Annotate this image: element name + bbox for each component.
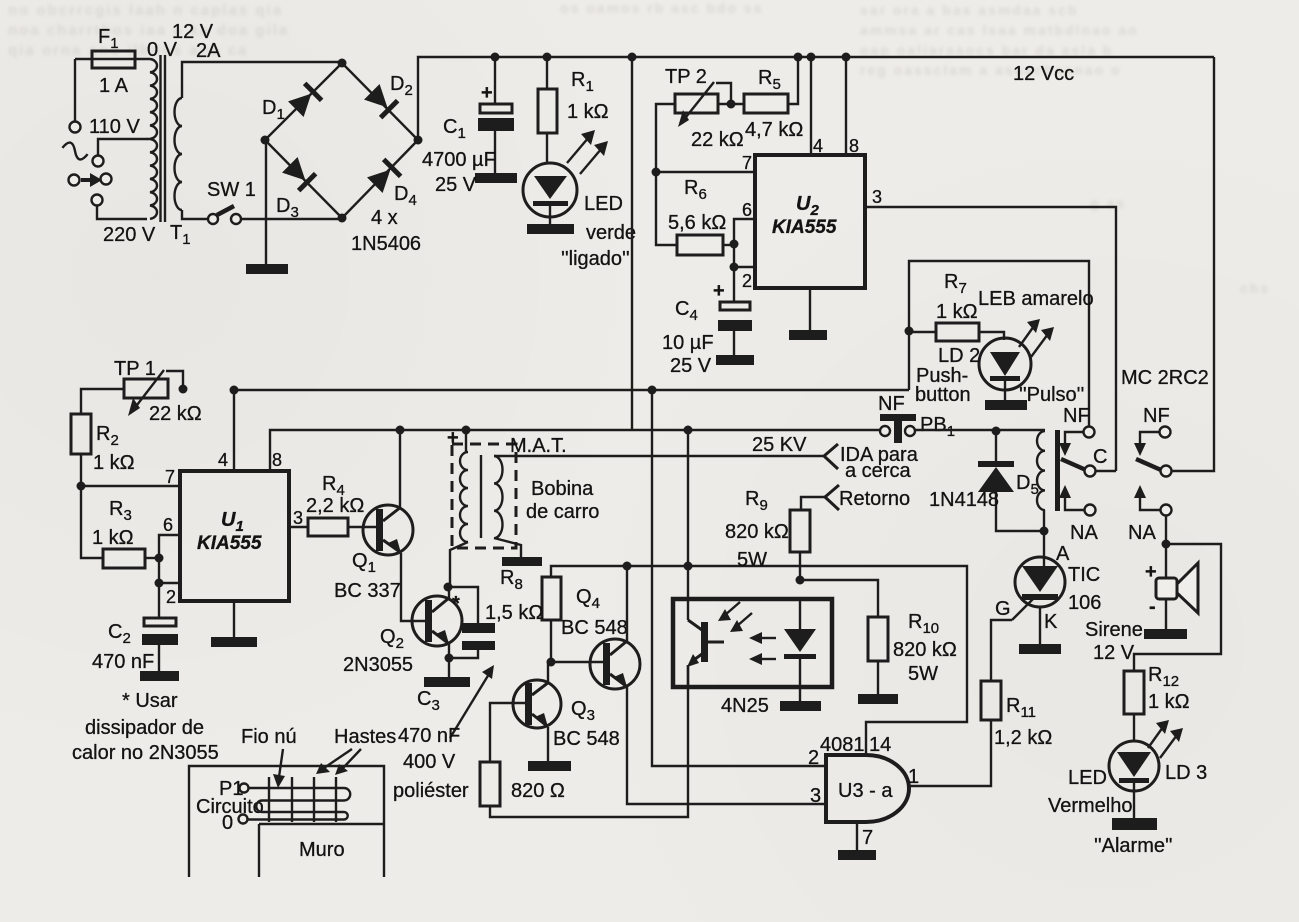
svg-text:C3: C3 [417,688,440,714]
bobina dashed box [452,444,516,548]
svg-text:Vermelho: Vermelho [1048,795,1133,817]
svg-text:4N25: 4N25 [721,695,769,717]
label R9 value 820 kOhm [725,521,789,543]
label NF PB1 [878,393,905,415]
label 820 Ohm [511,780,565,802]
wire pin6 U1 [159,535,180,558]
label C3 400 V [403,751,456,773]
svg-text:106: 106 [1068,592,1101,614]
ground below sirene [1144,629,1187,639]
label pin 6 U1 [163,515,173,535]
LED LD1 arrows [567,130,608,174]
resistor R1 [538,57,557,164]
svg-text:Muro: Muro [299,839,345,861]
node pin2 junction [730,263,739,272]
label P1 [219,778,243,800]
wire bridge right node to 12V rail [418,57,495,140]
label F1 value 1 A [99,75,129,97]
label R2 [96,423,119,449]
pushbutton PB1 [880,414,916,443]
label pin 2 U2 [742,271,752,291]
label footnote Usar dissipador [72,690,219,764]
label Bobina de carro [526,478,599,523]
wire U2 pin2 [734,266,755,268]
label C3 value 470 nF [398,725,460,747]
ground below LD2 [985,400,1027,410]
wire Q4 emitter to U3 pin3 [627,687,826,804]
svg-text:R7: R7 [944,271,967,297]
node bridge left [261,136,270,145]
label 4N25 [721,695,769,717]
svg-text:LED: LED [1068,767,1107,789]
label poliester [393,780,469,802]
4N25 coupling arrows [749,632,776,665]
label plus sirene [1145,561,1157,583]
wire U2 pin8 [845,57,847,155]
wire 12Vcc to contact set2 [1171,57,1214,471]
svg-text:R8: R8 [500,567,523,593]
wire U1 pin7 [81,485,180,487]
relay contact set2 NA terminal [1134,485,1172,516]
wire Q2 emitter to ground [448,644,450,677]
label 0 [222,812,233,834]
label NF contact1 [1063,405,1090,427]
transformer T1 core [161,55,166,222]
label 4081 [820,734,865,756]
svg-text:''Pulso'': ''Pulso'' [1019,384,1084,406]
LED LD1 verde [523,163,577,224]
wire R2 node to R3 [81,486,103,558]
label MC 2RC2 [1121,367,1209,389]
label pin 1 U3 [908,766,919,788]
svg-text:D5: D5 [1016,472,1039,498]
svg-text:-: - [1149,596,1156,618]
svg-text:R9: R9 [745,488,768,514]
svg-text:KIA555: KIA555 [772,217,837,238]
node TP2 wiper [727,100,736,109]
label R10 value 820 kOhm [893,639,957,661]
ground below C1 [475,173,517,183]
fuse F1 [75,51,150,68]
svg-text:400 V: 400 V [403,751,456,773]
label pin 3 U3 [810,785,821,807]
svg-text:1 kΩ: 1 kΩ [567,101,609,123]
node R7 left [905,327,914,336]
wire fuse to 110V terminal [74,59,76,121]
label 220 V [103,224,156,246]
wire TP2 to R5 [718,103,744,105]
relay contact set1 lever [1061,459,1086,470]
svg-text:25 V: 25 V [435,174,477,196]
svg-text:Q4: Q4 [576,586,600,612]
node bridge top [338,59,347,68]
svg-text:A: A [1056,543,1070,565]
label C4 value 10 uF [662,332,714,354]
relay core bar [1055,430,1060,511]
node rail R1 [543,53,552,62]
label C3 [417,688,440,714]
label M.A.T. [510,435,567,457]
svg-text:Hastes: Hastes [334,726,396,748]
label PB1 [920,414,955,440]
LED LD2 arrows [1019,319,1054,357]
label Sirene [1085,619,1143,641]
wire pin2 U1 [159,582,180,584]
svg-text:1,2 kΩ: 1,2 kΩ [994,727,1052,749]
svg-text:0 V: 0 V [147,39,178,61]
diode D2 [363,83,399,119]
svg-text:KIA555: KIA555 [197,533,262,554]
svg-text:7: 7 [742,153,752,173]
label 25 KV [752,434,807,456]
svg-text:2N3055: 2N3055 [343,654,413,676]
label C4 [675,298,698,324]
svg-text:calor no 2N3055: calor no 2N3055 [72,742,219,764]
label verde [586,222,636,244]
wire pin6 to pin2 [733,244,735,267]
chevron Retorno [801,485,839,510]
IC U1 KIA555 [180,471,289,601]
label pin 8 U1 [272,450,282,470]
label R11 value 1,2 kOhm [994,727,1052,749]
svg-text:NF: NF [878,393,905,415]
label pin 2 U3 [808,747,819,769]
svg-text:470 nF: 470 nF [398,725,460,747]
svg-text:*: * [452,593,460,615]
svg-text:1N5406: 1N5406 [351,233,421,255]
node sirene branch [1162,540,1171,549]
transistor Q1 [363,505,413,555]
label BC 548 Q3 [553,728,620,750]
label K cathode [1044,611,1058,633]
terminal P1 [240,784,249,793]
wire TP2 left to pin7 [656,104,677,245]
label R3 value 1 kOhm [92,527,134,549]
label Muro [299,839,345,861]
label 106 [1068,592,1101,614]
bobina core [480,455,482,538]
svg-text:8: 8 [272,450,282,470]
wire U1 pin8 rail [270,430,881,471]
svg-text:NF: NF [1063,405,1090,427]
svg-text:R11: R11 [1006,695,1036,721]
svg-text:NF: NF [1143,405,1170,427]
node Q4 collector rail [623,562,632,571]
label 12 V [172,21,214,43]
transistor Q4 [590,639,640,689]
label Q2 [380,626,404,652]
wire node391 horizontal [234,389,909,391]
label Q3 [571,698,595,724]
svg-text:button: button [915,384,971,406]
wire Q4 base [551,661,605,663]
svg-text:U1: U1 [221,509,244,535]
label 1N5406 [351,233,421,255]
svg-text:0: 0 [222,812,233,834]
wire Q1 emitter to Q2 base [401,553,427,621]
label pin 3 U1 [293,508,303,528]
svg-text:C2: C2 [108,621,131,647]
wire U2 pin7 [656,171,755,173]
svg-text:Q1: Q1 [352,550,376,576]
label R9 5W [737,549,767,571]
relay contact set1 NA terminal [1059,485,1096,516]
svg-text:NA: NA [1070,522,1098,544]
label R10 [908,611,939,637]
resistor R5 [744,57,798,113]
label LD 2 [938,345,980,367]
C3 pointer arrow [450,665,494,738]
node R3 pin6 [155,554,164,563]
wire R8 rail [551,566,967,755]
node rail center vertical [628,53,637,62]
selector plug arrow [69,173,112,187]
label TP 2 [665,66,707,88]
svg-text:4 x: 4 x [371,207,398,229]
label C2 [108,621,131,647]
node D5 top [992,427,1001,436]
svg-text:1N4148: 1N4148 [929,489,999,511]
svg-text:25 V: 25 V [670,355,712,377]
svg-text:R5: R5 [758,67,781,93]
svg-text:M.A.T.: M.A.T. [510,435,567,457]
resistor R4 [308,518,377,536]
label R6 value 5,6 kOhm [668,212,726,234]
svg-text:1 kΩ: 1 kΩ [1148,691,1190,713]
label Q1 [352,550,376,576]
svg-text:22 kΩ: 22 kΩ [149,403,202,425]
svg-text:U2: U2 [796,193,819,219]
wire Q3 base [490,703,527,762]
label R1 value 1 kOhm [567,101,609,123]
svg-text:2A: 2A [196,40,221,62]
SCR TIC106 gate wire [1012,597,1035,620]
svg-text:dissipador de: dissipador de [85,717,204,739]
svg-text:Q2: Q2 [380,626,404,652]
svg-text:* Usar: * Usar [122,690,178,712]
wire U1 pin4 [233,390,235,471]
svg-text:LD 3: LD 3 [1165,762,1207,784]
optocoupler 4N25 box [673,599,832,687]
svg-text:2: 2 [166,587,176,607]
label LD 3 [1165,762,1207,784]
4N25 light arrows [718,602,752,632]
node relay coil bottom [1040,527,1049,536]
label R8 value 1,5 kOhm [485,602,543,624]
wire 4N25 branch vertical [687,430,689,620]
node R6 pin6 [730,240,739,249]
label G [995,598,1011,620]
wire pin6 to pin2 node [158,558,160,583]
label pin 4 U2 [813,136,823,156]
label R4 value 2,2 kOhm [306,495,364,517]
svg-text:TIC: TIC [1068,564,1100,586]
label 2N3055 [343,654,413,676]
svg-text:C1: C1 [443,116,466,142]
label D1 [262,97,285,123]
svg-text:6: 6 [742,200,752,220]
node Q2 collector [444,583,453,592]
ground below U3 [838,822,876,860]
svg-text:1 kΩ: 1 kΩ [936,301,978,323]
relay contact set1 NF terminal [1059,427,1095,457]
relay contact set2 NF terminal [1134,427,1171,457]
label pin 8 U2 [849,136,859,156]
node R2 pin7 [77,482,86,491]
wire MAT high voltage [494,455,824,457]
label pin 7 U3 [862,827,873,849]
muro wall outline [189,766,384,877]
label R12 value 1 kOhm [1148,691,1190,713]
node R8 bottom Q4 base [547,658,556,667]
svg-text:1,5 kΩ: 1,5 kΩ [485,602,543,624]
label R5 [758,67,781,93]
Hastes arrows [316,749,361,775]
svg-text:5W: 5W [737,549,767,571]
label TP1 value 22 kOhm [149,403,202,425]
svg-text:2: 2 [808,747,819,769]
label TP 1 [114,358,156,380]
label 0 V [147,39,178,61]
svg-text:TP 2: TP 2 [665,66,707,88]
ground below bridge [246,264,288,274]
svg-text:poliéster: poliéster [393,780,469,802]
label ligado [561,248,630,270]
label IDA para a cerca [840,444,919,482]
transformer T1 secondary winding [175,98,182,210]
label D2 [390,73,413,99]
IC U2 KIA555 [755,155,865,288]
wire U3 output to R11 [909,720,991,786]
label 4 x [371,207,398,229]
resistor R6 [677,235,734,255]
label pin 2 U1 [166,587,176,607]
label NA contact2 [1128,522,1156,544]
node TP1 right [179,385,188,394]
svg-text:BC 337: BC 337 [334,580,401,602]
svg-text:+: + [713,280,725,302]
transistor Q3 [513,680,561,728]
svg-text:''ligado'': ''ligado'' [561,248,630,270]
svg-text:R12: R12 [1148,664,1179,690]
wire 12V rail [495,56,1214,58]
svg-text:a cerca: a cerca [845,460,911,482]
ground below U2 [789,288,827,340]
svg-text:1: 1 [908,766,919,788]
svg-text:D2: D2 [390,73,413,99]
wire Q3 collector [547,662,549,683]
chevron IDA [824,444,838,469]
capacitor C2 [142,583,178,671]
label R6 [684,177,707,203]
label TP2 value 22 kOhm [691,129,744,151]
wire PB1 to relay coil [914,429,1045,431]
wire secondary bottom to SW1 [182,210,208,219]
potentiometer TP2 [675,82,731,127]
transistor Q2 [412,596,462,646]
label pin 3 U2 [872,187,882,207]
svg-text:F1: F1 [98,26,119,52]
svg-text:PB1: PB1 [920,414,955,440]
label T1 [170,222,191,248]
wire SW1 to bridge bottom node [241,218,342,219]
AND gate U3-a [826,755,909,822]
svg-text:470 nF: 470 nF [92,651,154,673]
wire center vertical from rail [631,57,633,430]
label D5 [1016,472,1039,498]
wire U2 pin3 to relay contact C [865,207,1116,471]
svg-text:2: 2 [742,271,752,291]
node wire391 U3pin2 branch [648,386,657,395]
label F1 [98,26,119,52]
svg-text:C: C [1093,446,1107,468]
svg-text:BC 548: BC 548 [553,728,620,750]
svg-text:R3: R3 [109,498,132,524]
label R4 [322,473,345,499]
label Retorno [839,488,910,510]
ground below Q2 [424,677,470,687]
svg-text:8: 8 [849,136,859,156]
diode D3 [281,156,317,192]
4N25 internal LED [784,599,816,701]
potentiometer TP1 [124,370,183,416]
label NA contact1 [1070,522,1098,544]
label R9 [745,488,768,514]
wire R9 to R10 [800,580,878,617]
label asterisk [452,593,460,615]
resistor R7 [909,323,1004,341]
resistor R3 [103,549,159,568]
ground below LED LD1 [527,224,574,234]
resistor R2 [71,414,91,486]
ground below U1 [211,601,257,647]
svg-text:7: 7 [165,467,175,487]
label Hastes [334,726,396,748]
svg-text:4700 µF: 4700 µF [422,149,496,171]
node bridge right [414,136,423,145]
label C1 value 4700 uF [422,149,496,171]
svg-text:R2: R2 [96,423,119,449]
wire sirene branch to R12 [1134,544,1221,671]
svg-text:LED: LED [584,193,623,215]
terminal 0 [239,815,248,824]
SCR TIC106 [1015,531,1065,644]
AC source symbol [61,141,90,161]
label R3 [109,498,132,524]
wire Q3 emitter ground [547,727,549,761]
resistor R9 [790,510,810,580]
node rail U2 pin4 [807,53,816,62]
svg-text:G: G [995,598,1011,620]
svg-text:110 V: 110 V [89,116,140,138]
node R9 bottom [796,576,805,585]
wire Q4 collector [626,566,628,641]
svg-text:12 Vcc: 12 Vcc [1013,63,1074,85]
svg-text:7: 7 [862,827,873,849]
label 12 V sirene [1093,642,1135,664]
svg-text:820 Ω: 820 Ω [511,780,565,802]
svg-text:Q3: Q3 [571,698,595,724]
svg-text:D3: D3 [276,195,299,221]
label R11 [1006,695,1036,721]
svg-text:LEB amarelo: LEB amarelo [978,288,1094,310]
capacitor C4 [713,267,752,355]
relay contact set2 C terminal [1161,466,1172,477]
resistor 820 ohm [480,665,688,817]
wire 220V tap [97,206,147,219]
label NF contact2 [1143,405,1170,427]
label C4 voltage 25 V [670,355,712,377]
